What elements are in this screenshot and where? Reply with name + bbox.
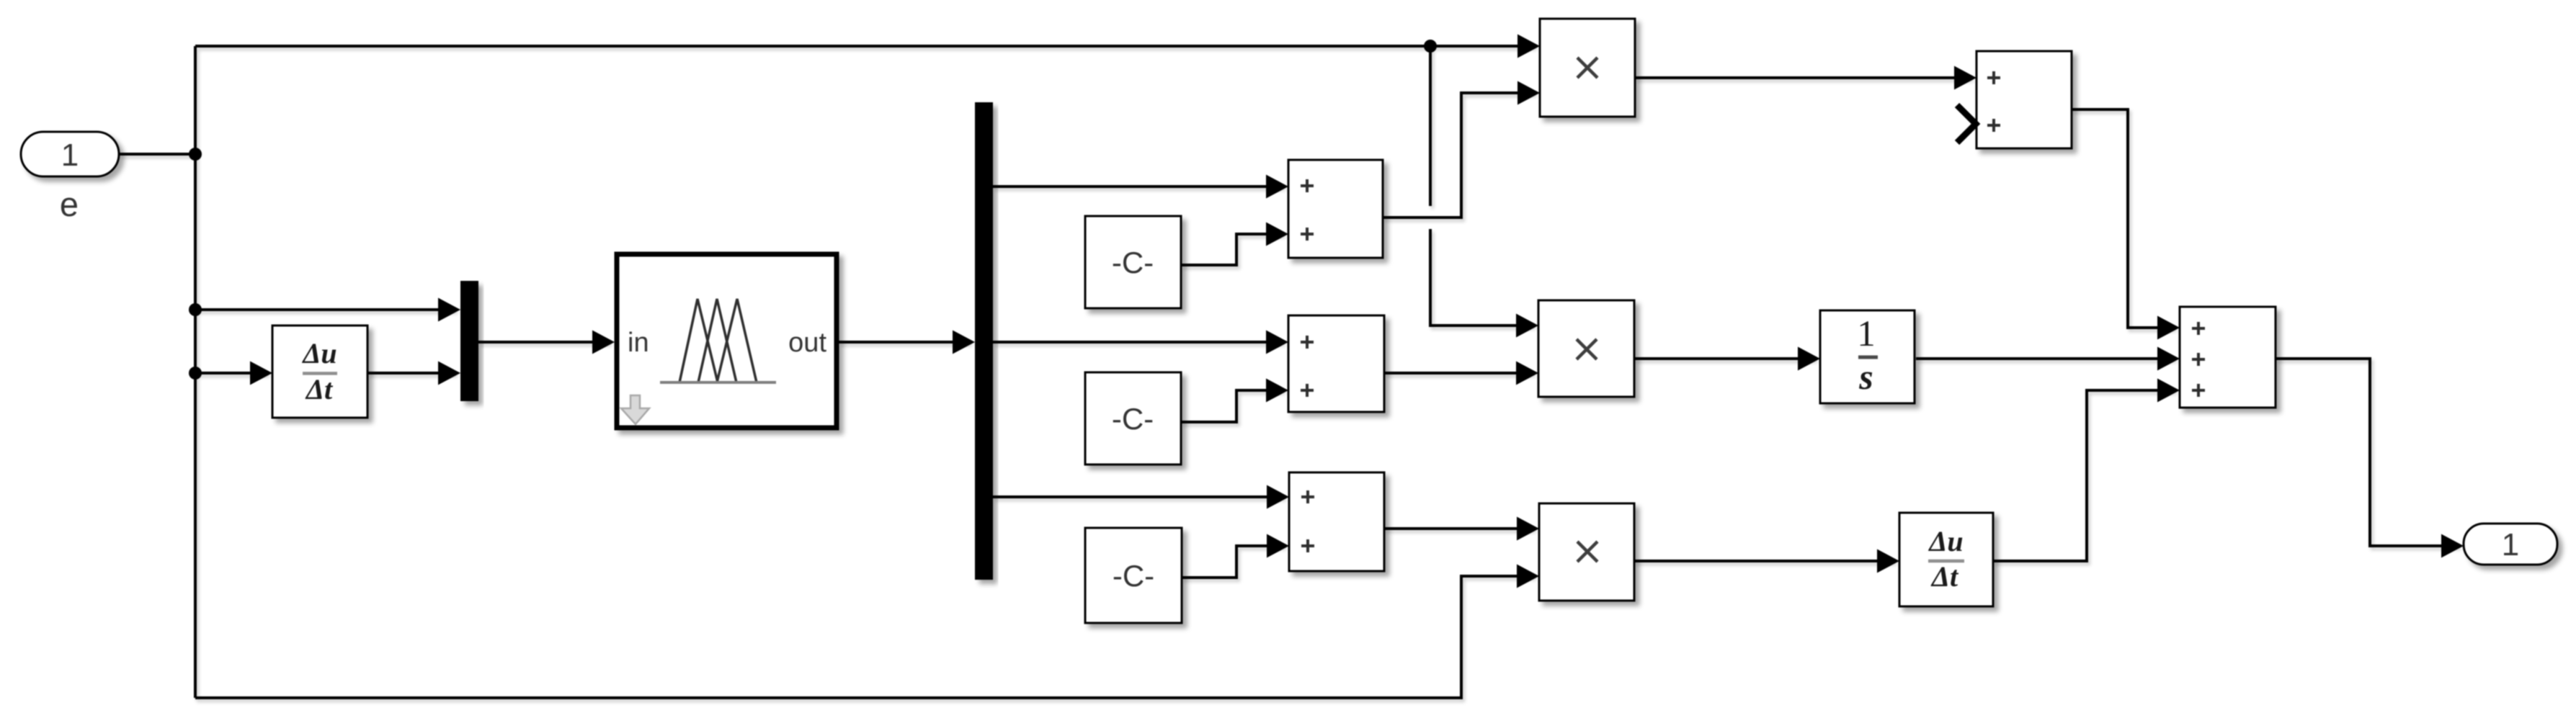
outport 1 (2464, 524, 2557, 565)
wire fuzzy controller to demux (839, 341, 970, 344)
wire product P3 to derivative D2 (1634, 560, 1894, 562)
arrowhead into sum S5 input 3 (2157, 379, 2180, 403)
arrowhead into sum S5 input 1 (2157, 316, 2180, 340)
derivative D2 (Du/Dt) (1899, 513, 1993, 606)
arrowhead into mux input 2 (438, 362, 460, 385)
svg-text:e: e (60, 185, 79, 223)
junction dots (189, 40, 1437, 380)
svg-text:-C-: -C- (1112, 402, 1154, 436)
node at top branch (1424, 40, 1437, 53)
product P1 (1540, 19, 1635, 117)
node at mux branch (189, 303, 202, 316)
svg-text:Δt: Δt (1930, 560, 1959, 593)
arrowhead into sum S1 input 1 (1266, 175, 1288, 199)
arrowhead into product P1 input 2 (1517, 81, 1540, 105)
arrowhead into sum S5 input 2 (2157, 347, 2180, 371)
arrowhead into fuzzy controller (592, 331, 615, 354)
wire product P1 to sum S4 (1635, 76, 1971, 79)
arrowhead into sum S3 input 1 (1267, 485, 1289, 509)
arrowhead into derivative D2 (1877, 549, 1899, 573)
product P3 (1539, 503, 1634, 601)
constant C1 (-C-) (1085, 216, 1181, 308)
wire top branch down to product P2, gap at crossing (1430, 46, 1533, 326)
sum S5 (2180, 307, 2276, 408)
arrowhead into sum S2 input 1 (1266, 331, 1288, 354)
wire sum S1 to product P1 (1383, 93, 1535, 217)
wire demux out1 to sum S1 (993, 185, 1283, 188)
membership triangles (679, 299, 757, 382)
svg-text:Δu: Δu (301, 337, 337, 369)
inport 1 (e) (21, 132, 119, 176)
wire top run to product P1 (195, 45, 1535, 48)
derivative D1 (Du/Dt) (272, 326, 367, 418)
wire integrator to sum S5 (1916, 357, 2175, 360)
arrowheads group (250, 35, 2464, 588)
mux (460, 281, 478, 401)
sum S1 (1288, 160, 1383, 258)
fuzzy logic controller (617, 254, 837, 428)
unconnected input chevron on sum S4 (1957, 105, 1976, 143)
arrowhead into derivative D1 (250, 362, 272, 385)
arrowhead into product P1 input 1 (1517, 35, 1540, 58)
wire sum S5 to outport (2276, 359, 2459, 546)
svg-text:in: in (628, 328, 649, 358)
arrowhead into product P3 input 2 (1517, 565, 1539, 588)
arrowhead into product P2 input 2 (1516, 362, 1538, 385)
wire mux to fuzzy controller (478, 341, 610, 344)
wire sum S3 to product P3 (1384, 527, 1534, 530)
wire constant C2 to sum S2 (1181, 390, 1283, 422)
wire bottom run to product P3 (195, 576, 1534, 698)
wire inport to main vertical (119, 153, 195, 156)
node at inport branch (189, 148, 202, 161)
svg-text:out: out (788, 328, 826, 358)
arrowhead into mux input 1 (438, 298, 460, 322)
constant C3 (-C-) (1085, 528, 1182, 623)
svg-text:s: s (1858, 356, 1873, 397)
product P2 (1538, 300, 1634, 397)
gray dropdown arrow (621, 395, 649, 424)
arrowhead into product P2 input 1 (1516, 314, 1538, 338)
constant C2 (-C-) (1085, 372, 1181, 465)
wire sum S4 to sum S5 (2072, 109, 2175, 328)
wire main vertical trunk (194, 46, 197, 698)
sum S2 (1288, 315, 1384, 412)
node at derivative branch (189, 367, 202, 380)
sum S4 (1976, 51, 2072, 148)
wire constant C3 to sum S3 (1182, 546, 1284, 578)
arrowhead into sum S4 input 1 (1954, 66, 1976, 90)
wire sum S2 to product P2 (1384, 372, 1533, 374)
svg-text:Δt: Δt (305, 373, 334, 405)
arrowhead into outport (2441, 534, 2464, 558)
arrowhead into sum S3 input 2 (1267, 534, 1289, 558)
wire branch to mux input 1 (195, 308, 455, 311)
wire derivative D1 to mux input 2 (367, 372, 455, 374)
svg-text:1: 1 (1857, 314, 1876, 354)
wire product P2 to integrator (1634, 357, 1815, 360)
svg-text:-C-: -C- (1112, 246, 1154, 279)
arrowhead into product P3 input 1 (1517, 517, 1539, 541)
arrowhead into integrator (1798, 347, 1820, 371)
wire derivative D2 to sum S5 (1993, 390, 2175, 561)
arrowhead into sum S1 input 2 (1266, 223, 1288, 246)
sum S3 (1289, 472, 1384, 571)
svg-text:1: 1 (61, 138, 79, 173)
svg-text:Δu: Δu (1927, 525, 1963, 557)
arrowhead into demux (953, 331, 975, 354)
svg-text:-C-: -C- (1113, 559, 1154, 593)
wire demux out3 to sum S3 (993, 495, 1284, 498)
arrowhead into sum S2 input 2 (1266, 379, 1288, 403)
demux (975, 102, 993, 580)
svg-text:1: 1 (2502, 527, 2519, 562)
wire demux out2 to sum S2 (993, 341, 1283, 344)
wire branch to derivative D1 (195, 372, 267, 374)
integrator 1/s (1820, 310, 1915, 403)
wire constant C1 to sum S1 (1181, 234, 1283, 265)
